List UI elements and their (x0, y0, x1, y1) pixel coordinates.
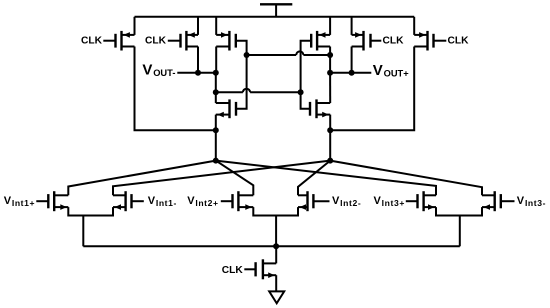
wire M7 drain from VOUT- (215, 92, 217, 103)
wire node B to M12 drain (Vint2-) (298, 161, 330, 196)
transistor M15 (tail CLK NMOS) (256, 259, 277, 279)
node dot right-gates / bottom cross wire (298, 89, 304, 95)
wire VOUT- horizontal (177, 72, 216, 74)
label VOUT+ (373, 62, 409, 79)
wire M11 (Vint2+ NMOS)/M12 (Vint2- NMOS) common source (253, 207, 298, 215)
wire M7 source down (215, 115, 217, 131)
label VOUT- (142, 61, 175, 78)
node dot VOUT- output node (213, 70, 219, 76)
svg-text:VInt1-: VInt1- (148, 195, 177, 208)
label CLK (M3 gate) (383, 36, 405, 47)
node dot VOUT- vertical / bottom cross wire (213, 89, 219, 95)
wire node A to M11 drain (Vint2+) (216, 161, 254, 196)
wire M4 gate lead (434, 40, 447, 42)
wire M3 gate lead (371, 40, 382, 42)
transistor M11 (Vint2+ NMOS) (233, 191, 254, 211)
transistor M12 (Vint2- NMOS) (298, 191, 313, 211)
wire M13 gate lead (406, 200, 418, 202)
node dot VOUT+ vertical / top cross wire (327, 52, 333, 58)
transistor M3 (CLK PMOS, inner right) (352, 31, 371, 51)
svg-text:VInt1+: VInt1+ (4, 195, 35, 208)
node dot VOUT+ output node (327, 70, 333, 76)
transistor M9 (Vint1+ NMOS) (48, 191, 68, 211)
node dot M2 drain on VOUT- (195, 70, 201, 76)
wire right output node vertical (VOUT+ down) (329, 55, 331, 73)
wire node B to M14 drain (Vint3-) (330, 161, 482, 196)
wire M2 gate lead (168, 40, 181, 42)
label VInt2+ (187, 195, 218, 208)
transistor M8 (latch NMOS right) (310, 99, 330, 118)
wire M2 drain to VOUT- (197, 47, 199, 73)
wire M15 drain up (275, 246, 277, 263)
wire M15 gate lead (244, 268, 255, 270)
svg-text:CLK: CLK (81, 36, 103, 47)
transistor M5 (latch PMOS left) (216, 31, 236, 51)
transistor M1 (CLK PMOS, outer left) (116, 31, 135, 51)
label CLK (tail gate) (222, 265, 244, 276)
label VInt3- (517, 195, 546, 208)
label CLK (M1 gate) (81, 36, 103, 47)
wire M9 (Vint1+ NMOS)/M10 (Vint1- NMOS) tail tap (82, 216, 84, 247)
svg-text:CLK: CLK (448, 36, 470, 47)
wire M5 gate to node B vertical (236, 41, 247, 55)
wire M6 drain to top cross wire (329, 47, 331, 56)
svg-text:VInt2+: VInt2+ (187, 195, 218, 208)
ground symbol (269, 291, 284, 303)
label VInt3+ (374, 195, 405, 208)
transistor M6 (latch PMOS right) (311, 31, 330, 51)
wire M9 (Vint1+ NMOS)/M10 (Vint1- NMOS) common source (68, 207, 113, 215)
wire M15 source to ground (275, 275, 277, 291)
wire M11 gate lead (221, 200, 233, 202)
wire top cross-coupling (left gates to node VOUT+) (247, 51, 331, 55)
wire left output node vertical (VOUT- down) (215, 73, 217, 93)
wire VDD rail (135, 16, 415, 18)
wire right node to summing node B (329, 130, 331, 160)
transistor M2 (CLK PMOS, inner left) (181, 31, 199, 51)
svg-text:VInt3-: VInt3- (517, 195, 546, 208)
transistor M13 (Vint3+ NMOS) (418, 191, 437, 211)
node dot left-gates / top cross wire (244, 52, 250, 58)
wire M9 gate lead (36, 200, 48, 202)
wire M8 gate vertical (301, 92, 310, 109)
wire left node to summing node A (215, 130, 217, 160)
node dot M3 drain on VOUT+ (349, 70, 355, 76)
node dot right internal node (327, 127, 333, 133)
transistor M14 (Vint3- NMOS) (482, 191, 501, 211)
node dot tail junction (273, 243, 279, 249)
label VInt1- (148, 195, 177, 208)
wire M13 (Vint3+ NMOS)/M14 (Vint3- NMOS) common source (436, 207, 482, 215)
wire M8 drain from VOUT+ (329, 73, 331, 103)
wire M14 gate lead (501, 200, 515, 202)
wire M10 gate lead (132, 200, 144, 202)
svg-text:VInt2-: VInt2- (332, 195, 361, 208)
wire M11 (Vint2+ NMOS)/M12 (Vint2- NMOS) tail tap (275, 216, 277, 247)
node dot left internal node (213, 127, 219, 133)
svg-text:CLK: CLK (383, 36, 405, 47)
svg-text:VOUT-: VOUT- (142, 61, 175, 78)
svg-text:CLK: CLK (222, 265, 244, 276)
wire node A to M9 drain (Vint1+) (68, 161, 216, 196)
wire M3 source to rail (351, 17, 353, 35)
label CLK (M4 gate) (448, 36, 470, 47)
label VInt2- (332, 195, 361, 208)
power VDD symbol (260, 4, 292, 16)
label VInt1+ (4, 195, 35, 208)
wire M7 gate vertical (236, 55, 247, 109)
label CLK (M2 gate) (145, 36, 167, 47)
svg-text:VOUT+: VOUT+ (373, 62, 409, 79)
transistor M10 (Vint1- NMOS) (113, 191, 132, 211)
wire M5 source to rail (215, 17, 217, 35)
wire VOUT+ horizontal (330, 72, 371, 74)
wire node B to M10 drain (Vint1-) (113, 161, 330, 196)
node B (right summing node) (327, 158, 333, 164)
wire common tail rail (83, 245, 460, 247)
wire M4 drain / right frame (330, 47, 414, 131)
svg-text:CLK: CLK (145, 36, 167, 47)
wire M1 source to rail (134, 17, 136, 35)
wire M6 source to rail (329, 17, 331, 35)
transistor M7 (latch NMOS left) (216, 99, 236, 118)
wire M6 gate lead (301, 41, 312, 93)
wire M12 gate lead (313, 200, 329, 202)
wire M2 source to rail (197, 17, 199, 35)
wire M1 drain / left frame (135, 47, 216, 131)
node A (left summing node) (213, 158, 219, 164)
wire M5 drain to VOUT- (215, 47, 217, 73)
wire bottom cross-coupling (VOUT- to right gates) (216, 89, 301, 93)
wire M13 (Vint3+ NMOS)/M14 (Vint3- NMOS) tail tap (459, 216, 461, 247)
wire node A to M13 drain (Vint3+) (216, 161, 436, 196)
transistor M4 (CLK PMOS, outer right) (414, 31, 433, 51)
wire M3 drain to VOUT+ (351, 47, 353, 73)
wire M8 source down (329, 115, 331, 131)
svg-text:VInt3+: VInt3+ (374, 195, 405, 208)
wire M4 source to rail (413, 17, 415, 35)
wire M1 gate lead (103, 40, 115, 42)
